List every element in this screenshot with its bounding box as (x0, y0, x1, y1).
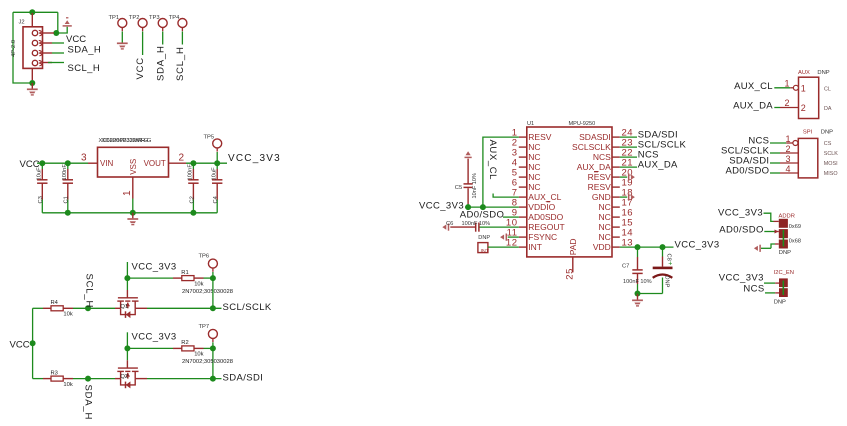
connector J2 (23, 27, 43, 69)
svg-text:1: 1 (801, 83, 806, 93)
wire to R2 (127, 347, 173, 349)
svg-text:3: 3 (785, 154, 790, 164)
wire TP2 net VCC (142, 32, 144, 56)
jumper ADDR DNP (779, 213, 801, 256)
pin J2-1 circle (32, 30, 37, 35)
svg-text:100nF 10%: 100nF 10% (623, 279, 652, 285)
capacitor C7 (632, 247, 642, 293)
wire Q2 source lead (115, 378, 121, 380)
svg-text:TP2: TP2 (129, 15, 140, 21)
svg-text:VSS: VSS (129, 159, 138, 175)
testpoint TP5 (213, 139, 222, 148)
ground arrow left pin11 (500, 234, 506, 241)
svg-text:VCC_3V3: VCC_3V3 (228, 153, 281, 164)
wire net AUX_DA (620, 166, 637, 168)
svg-text:VCC_3V3: VCC_3V3 (675, 239, 720, 250)
pin 14 NC (599, 228, 634, 243)
wire TP3 net SDA_H (162, 32, 164, 45)
svg-text:VCC_3V3: VCC_3V3 (132, 332, 177, 343)
overline VDDIO (547, 201, 551, 203)
wire I2C_EN pin1 (764, 282, 775, 284)
svg-text:CS: CS (824, 141, 832, 147)
svg-text:PAD: PAD (568, 238, 578, 255)
capacitor C8 DNP (653, 247, 673, 293)
svg-text:2N7002;305030028: 2N7002;305030028 (182, 289, 233, 295)
capacitor C3 (41, 163, 43, 169)
capacitor C5 (464, 159, 473, 208)
svg-text:SDASDI: SDASDI (579, 132, 611, 142)
ground C7 (637, 294, 639, 300)
pin J2-3 contact (39, 50, 42, 55)
svg-text:J2: J2 (19, 20, 25, 26)
pin 4 NC (512, 158, 541, 173)
IC U1 MPU-9250 body (527, 127, 612, 257)
pin 22 NCS (593, 148, 633, 163)
pin 16 NC (599, 208, 634, 223)
junction C1 (65, 160, 71, 166)
wire VDD net (620, 246, 674, 248)
resistor R1 (173, 277, 182, 279)
svg-text:RESV: RESV (588, 182, 611, 192)
svg-text:R2: R2 (181, 340, 188, 346)
svg-text:+: + (668, 260, 672, 267)
svg-text:C2: C2 (189, 196, 195, 203)
wire R3 to Q2 (73, 378, 115, 380)
svg-text:DNP: DNP (478, 235, 490, 241)
wire I2C_EN pin2 (765, 292, 775, 294)
capacitor C6 (450, 223, 519, 232)
wire to R1 (127, 277, 173, 279)
svg-text:VOUT: VOUT (144, 159, 166, 168)
wire Q1 drain lead (135, 307, 147, 309)
wire VCC rail (32, 308, 34, 378)
svg-text:AD0/SDO: AD0/SDO (460, 210, 505, 221)
wire net VCC stub (52, 42, 64, 44)
svg-text:2: 2 (801, 103, 806, 113)
capacitor C4 (216, 163, 218, 169)
chassis ground symbol (63, 18, 72, 26)
pin J2-2 contact (39, 40, 42, 45)
junction gate (124, 275, 130, 281)
svg-text:MISO: MISO (824, 171, 838, 177)
ground arrow left C6 (442, 224, 448, 231)
svg-text:INT: INT (481, 249, 490, 255)
svg-text:GND: GND (592, 192, 611, 202)
wire VOUT to VCC_3V3 (186, 162, 227, 164)
wire J2 pin4 lead (42, 62, 52, 64)
junction bottom (29, 80, 35, 86)
svg-text:C8: C8 (666, 254, 672, 261)
svg-text:NC: NC (528, 152, 540, 162)
svg-text:1: 1 (785, 134, 790, 144)
pin 7 AUX_CL (512, 188, 562, 203)
wire ADDR pin1 (764, 213, 774, 221)
pin 23 SCLSCLK (572, 138, 633, 153)
svg-text:Q2: Q2 (120, 374, 128, 380)
connector SPI DNP (798, 130, 833, 178)
jumper I2C_EN DNP (774, 270, 794, 306)
wire J2 right vertical (57, 12, 59, 33)
overline RESV pin20 (594, 171, 598, 173)
wire AUX pin2 (774, 107, 780, 109)
wire VDDIO net (465, 206, 519, 208)
pin 19 RESV (588, 178, 633, 193)
svg-text:NC: NC (528, 182, 540, 192)
wire TP4 net SCL_H (181, 32, 183, 45)
svg-text:DNP: DNP (779, 250, 791, 256)
pin AUX 1 circle (793, 85, 798, 90)
svg-text:AUX_CL: AUX_CL (734, 81, 773, 92)
pin 15 NC (599, 218, 634, 233)
svg-text:AUX: AUX (798, 70, 810, 76)
svg-text:1: 1 (784, 78, 789, 88)
svg-text:SCLSCLK: SCLSCLK (572, 142, 611, 152)
pin 1 VSS stem (132, 177, 134, 199)
testpoint TP2 (138, 19, 147, 28)
pin 1 RESV (512, 128, 552, 143)
svg-text:VCC_3V3: VCC_3V3 (419, 200, 464, 211)
svg-text:NC: NC (599, 232, 611, 242)
svg-text:TP1: TP1 (109, 15, 120, 21)
wire net SCL_H stub (48, 62, 64, 64)
ground arrow left ADDR (754, 245, 760, 252)
junction rail C1 (65, 210, 71, 216)
wire Q1 source lead (115, 307, 121, 309)
svg-text:VCC_3V3: VCC_3V3 (719, 272, 764, 283)
wire VCC to VIN (37, 162, 88, 164)
svg-text:R3: R3 (51, 370, 58, 376)
testpoint TP6 (208, 259, 217, 268)
wire TP1 (121, 32, 123, 43)
svg-text:AUX_CL: AUX_CL (528, 192, 561, 202)
testpoint TP3 (158, 19, 167, 28)
svg-text:NC: NC (528, 162, 540, 172)
junction C8 (660, 244, 666, 250)
ground rail (132, 213, 134, 219)
junction C4 (214, 160, 220, 166)
wire to R4 (33, 307, 43, 309)
svg-text:AD0/SDO: AD0/SDO (725, 165, 769, 176)
wire J2 pin bottom lead (31, 68, 33, 80)
wire bottom rail (42, 212, 217, 214)
svg-text:AD0SDO: AD0SDO (528, 212, 563, 222)
svg-text:SCL/SCLK: SCL/SCLK (223, 302, 272, 313)
resistor R3 (43, 378, 51, 380)
svg-text:VCC: VCC (135, 57, 146, 79)
svg-text:R1: R1 (181, 270, 188, 276)
svg-text:VCC: VCC (10, 339, 30, 350)
wire R4 to Q1 (73, 307, 115, 309)
wire AUX_CL net (493, 194, 519, 198)
pin 24 SDASDI (579, 128, 633, 143)
svg-text:VCC: VCC (66, 34, 86, 45)
pin 5 NC (512, 168, 541, 183)
svg-text:TP6: TP6 (199, 254, 210, 260)
svg-text:AD0/SDO: AD0/SDO (719, 224, 764, 235)
pin 10 REGOUT (506, 218, 565, 233)
svg-text:TP5: TP5 (204, 135, 215, 141)
svg-text:I2C_EN: I2C_EN (774, 270, 794, 276)
junction pin1 loop (480, 204, 486, 210)
svg-text:10k: 10k (63, 312, 72, 318)
svg-text:C5: C5 (455, 185, 462, 191)
wire J2 top loop (13, 11, 58, 13)
wire net SDA/SDI (620, 136, 637, 138)
junction C5 (465, 204, 471, 210)
svg-text:FSYNC: FSYNC (528, 232, 557, 242)
pin 25 PAD (565, 238, 578, 279)
junction top (29, 9, 35, 15)
svg-text:1: 1 (122, 190, 133, 196)
testpad INT DNP (478, 235, 490, 255)
svg-text:DA: DA (824, 106, 832, 112)
wire Q2 drain to SDA/SDI (147, 378, 222, 380)
capacitor C2 (192, 163, 194, 169)
connector AUX DNP (798, 70, 830, 119)
wire VCC_3V3 stub lower (126, 332, 128, 348)
wire SPI pin3 (770, 162, 780, 164)
svg-text:0x69: 0x69 (789, 224, 801, 230)
wire Q1 drain to SCL/SCLK (147, 307, 222, 309)
pin 3 NC (512, 148, 541, 163)
svg-text:100nF 10%: 100nF 10% (462, 221, 491, 227)
svg-text:SDA_H: SDA_H (155, 45, 166, 81)
svg-text:SDA_H: SDA_H (82, 385, 93, 421)
junction rail gnd (130, 210, 136, 216)
svg-text:RESV: RESV (588, 172, 611, 182)
svg-text:TP3: TP3 (149, 15, 160, 21)
svg-text:2N7002;305030028: 2N7002;305030028 (182, 359, 233, 365)
svg-text:DNP: DNP (817, 70, 829, 76)
wire net NCS (620, 156, 637, 158)
svg-text:10k: 10k (63, 382, 72, 388)
svg-text:AUX_DA: AUX_DA (638, 160, 678, 171)
svg-text:R4: R4 (51, 300, 59, 306)
wire INT net (488, 246, 519, 248)
svg-text:4P-2.0: 4P-2.0 (11, 40, 17, 57)
wire TP6 to drain (212, 278, 214, 308)
pin 8 VDDIO (512, 198, 556, 213)
wire VSS to rail (132, 199, 134, 213)
svg-text:10k: 10k (194, 281, 203, 287)
wire to R3 (33, 378, 43, 380)
wire pin1 RESV loop (483, 137, 519, 207)
junction C2 (190, 160, 196, 166)
wire Q2 drain lead (135, 378, 147, 380)
svg-text:RESV: RESV (528, 132, 551, 142)
wire AD0SDO net (503, 216, 519, 218)
svg-text:SCL_H: SCL_H (68, 63, 101, 74)
ground (31, 83, 33, 89)
svg-text:SDA_H: SDA_H (68, 44, 102, 55)
junction C7 gnd (635, 291, 641, 297)
svg-text:NC: NC (528, 142, 540, 152)
svg-text:C1: C1 (64, 196, 70, 203)
svg-text:TP4: TP4 (169, 15, 180, 21)
svg-text:25: 25 (565, 268, 576, 280)
svg-text:DNP: DNP (664, 276, 670, 288)
svg-text:C4: C4 (213, 195, 219, 203)
svg-text:VDDIO: VDDIO (528, 202, 555, 212)
wire ADDR pin3 (761, 247, 771, 249)
transistor Q2 2N7002 (117, 368, 138, 385)
wire VCC_3V3 stub (126, 262, 128, 278)
svg-text:ADDR: ADDR (779, 213, 795, 219)
junction gate Q2 (124, 345, 130, 351)
svg-text:SCL_H: SCL_H (84, 274, 95, 309)
wire C8 to gnd (638, 293, 663, 295)
wire SPI pin4 (770, 172, 780, 174)
svg-text:NCS: NCS (593, 152, 611, 162)
wire ADDR pin2 (764, 231, 776, 233)
junction C3 (39, 160, 45, 166)
svg-text:NC: NC (528, 172, 540, 182)
pin 12 INT (506, 238, 542, 253)
svg-text:C7: C7 (622, 263, 629, 269)
pin J2-3 circle (32, 50, 37, 55)
wire gate Q2 (126, 348, 128, 360)
pin 11 FSYNC (507, 228, 557, 243)
capacitor C1 (67, 163, 69, 169)
ground arrow right pin18 (620, 196, 627, 198)
svg-text:2: 2 (784, 98, 789, 108)
svg-text:3: 3 (81, 153, 87, 164)
svg-text:VCC_3V3: VCC_3V3 (132, 261, 177, 272)
pin J2-4 circle (32, 60, 37, 65)
svg-text:2: 2 (785, 144, 790, 154)
svg-text:4: 4 (785, 164, 790, 174)
testpoint TP1 (118, 19, 127, 28)
svg-text:10uF: 10uF (36, 167, 42, 181)
wire J2 pin1 top lead (31, 13, 33, 27)
svg-text:0x68: 0x68 (789, 239, 801, 245)
pin 21 AUX_DA (577, 158, 633, 173)
wire J2 pin2 lead (42, 42, 52, 44)
svg-text:C3: C3 (38, 196, 44, 203)
svg-text:AUX_DA: AUX_DA (733, 101, 773, 112)
svg-text:CL: CL (824, 86, 831, 92)
junction SDA_H (85, 376, 91, 382)
wire J2 pin1 lead (42, 32, 54, 34)
junction R2 TP7 (210, 345, 216, 351)
svg-text:TP7: TP7 (199, 324, 210, 330)
junction drain (210, 305, 216, 311)
pin 6 NC (512, 178, 541, 193)
svg-text:DNP: DNP (774, 300, 786, 306)
pin 9 AD0SDO (512, 208, 564, 223)
wire to chassis (56, 27, 67, 33)
wire net SDA_H stub (52, 52, 64, 54)
svg-text:XC6206P332MR-G: XC6206P332MR-G (102, 138, 152, 144)
pin 13 VDD (593, 238, 633, 253)
junction drain Q2 (210, 376, 216, 382)
resistor R4 (43, 307, 51, 309)
svg-text:VCC_3V3: VCC_3V3 (718, 208, 763, 219)
pin 2 lead (169, 162, 187, 164)
pin 18 GND (592, 188, 633, 203)
ground arrow right pin20 (620, 176, 627, 178)
svg-text:NCS: NCS (743, 284, 764, 295)
wire net SCL/SCLK (620, 146, 637, 148)
svg-text:C6: C6 (446, 221, 453, 227)
svg-text:INT: INT (528, 242, 542, 252)
pin J2-2 circle (32, 40, 37, 45)
junction C7 (635, 244, 641, 250)
svg-text:U1: U1 (527, 121, 534, 127)
pin J2-1 contact (39, 30, 42, 35)
wire TP7 to drain (212, 348, 214, 378)
junction R1 TP6 (210, 275, 216, 281)
svg-text:VIN: VIN (100, 159, 114, 168)
svg-text:AUX_CL: AUX_CL (487, 140, 498, 181)
pin 2 NC (512, 138, 541, 153)
svg-text:10uF: 10uF (211, 167, 217, 181)
svg-text:NC: NC (599, 202, 611, 212)
testpoint TP7 (208, 329, 217, 338)
junction SCL_H (85, 305, 91, 311)
pin J2-4 contact (39, 60, 42, 65)
pin 20 RESV (588, 168, 633, 183)
regulator U2 XC6206 (98, 147, 169, 177)
svg-text:100nF: 100nF (188, 164, 194, 181)
wire SPI pin1 (770, 142, 786, 144)
wire J2 left loop (13, 12, 32, 83)
wire gate (126, 278, 128, 290)
svg-text:100nF: 100nF (62, 164, 68, 181)
svg-text:10nF 10%: 10nF 10% (472, 173, 478, 199)
wire TP5 (216, 152, 218, 163)
svg-text:SDA/SDI: SDA/SDI (223, 372, 264, 383)
svg-text:NC: NC (599, 222, 611, 232)
svg-text:10k: 10k (194, 352, 203, 358)
svg-text:SPI: SPI (803, 130, 813, 136)
svg-text:MPU-9250: MPU-9250 (569, 121, 596, 127)
junction pin1 net (53, 30, 59, 36)
svg-text:2: 2 (179, 153, 185, 164)
testpoint TP4 (178, 19, 187, 28)
transistor Q1 2N7002 (117, 298, 138, 315)
junction VCC rail (30, 340, 36, 346)
svg-text:AUX_DA: AUX_DA (577, 162, 611, 172)
svg-text:SCL_H: SCL_H (175, 46, 186, 81)
svg-text:DNP: DNP (821, 130, 833, 136)
svg-text:REGOUT: REGOUT (528, 222, 564, 232)
ground arrow up C5 (465, 151, 472, 157)
wire AUX pin1 (774, 87, 790, 89)
svg-text:SCLK: SCLK (824, 151, 838, 157)
pin 3 lead (88, 162, 98, 164)
wire J2 pin3 lead (42, 52, 52, 54)
svg-text:NC: NC (599, 212, 611, 222)
junction rail C2 (190, 210, 196, 216)
wire SPI pin2 (770, 152, 780, 154)
resistor R2 (173, 347, 182, 349)
ground TP1 (117, 43, 128, 49)
svg-text:Q1: Q1 (120, 304, 128, 310)
pin 17 NC (599, 198, 634, 213)
svg-text:VDD: VDD (593, 242, 611, 252)
svg-text:MOSI: MOSI (824, 161, 838, 167)
